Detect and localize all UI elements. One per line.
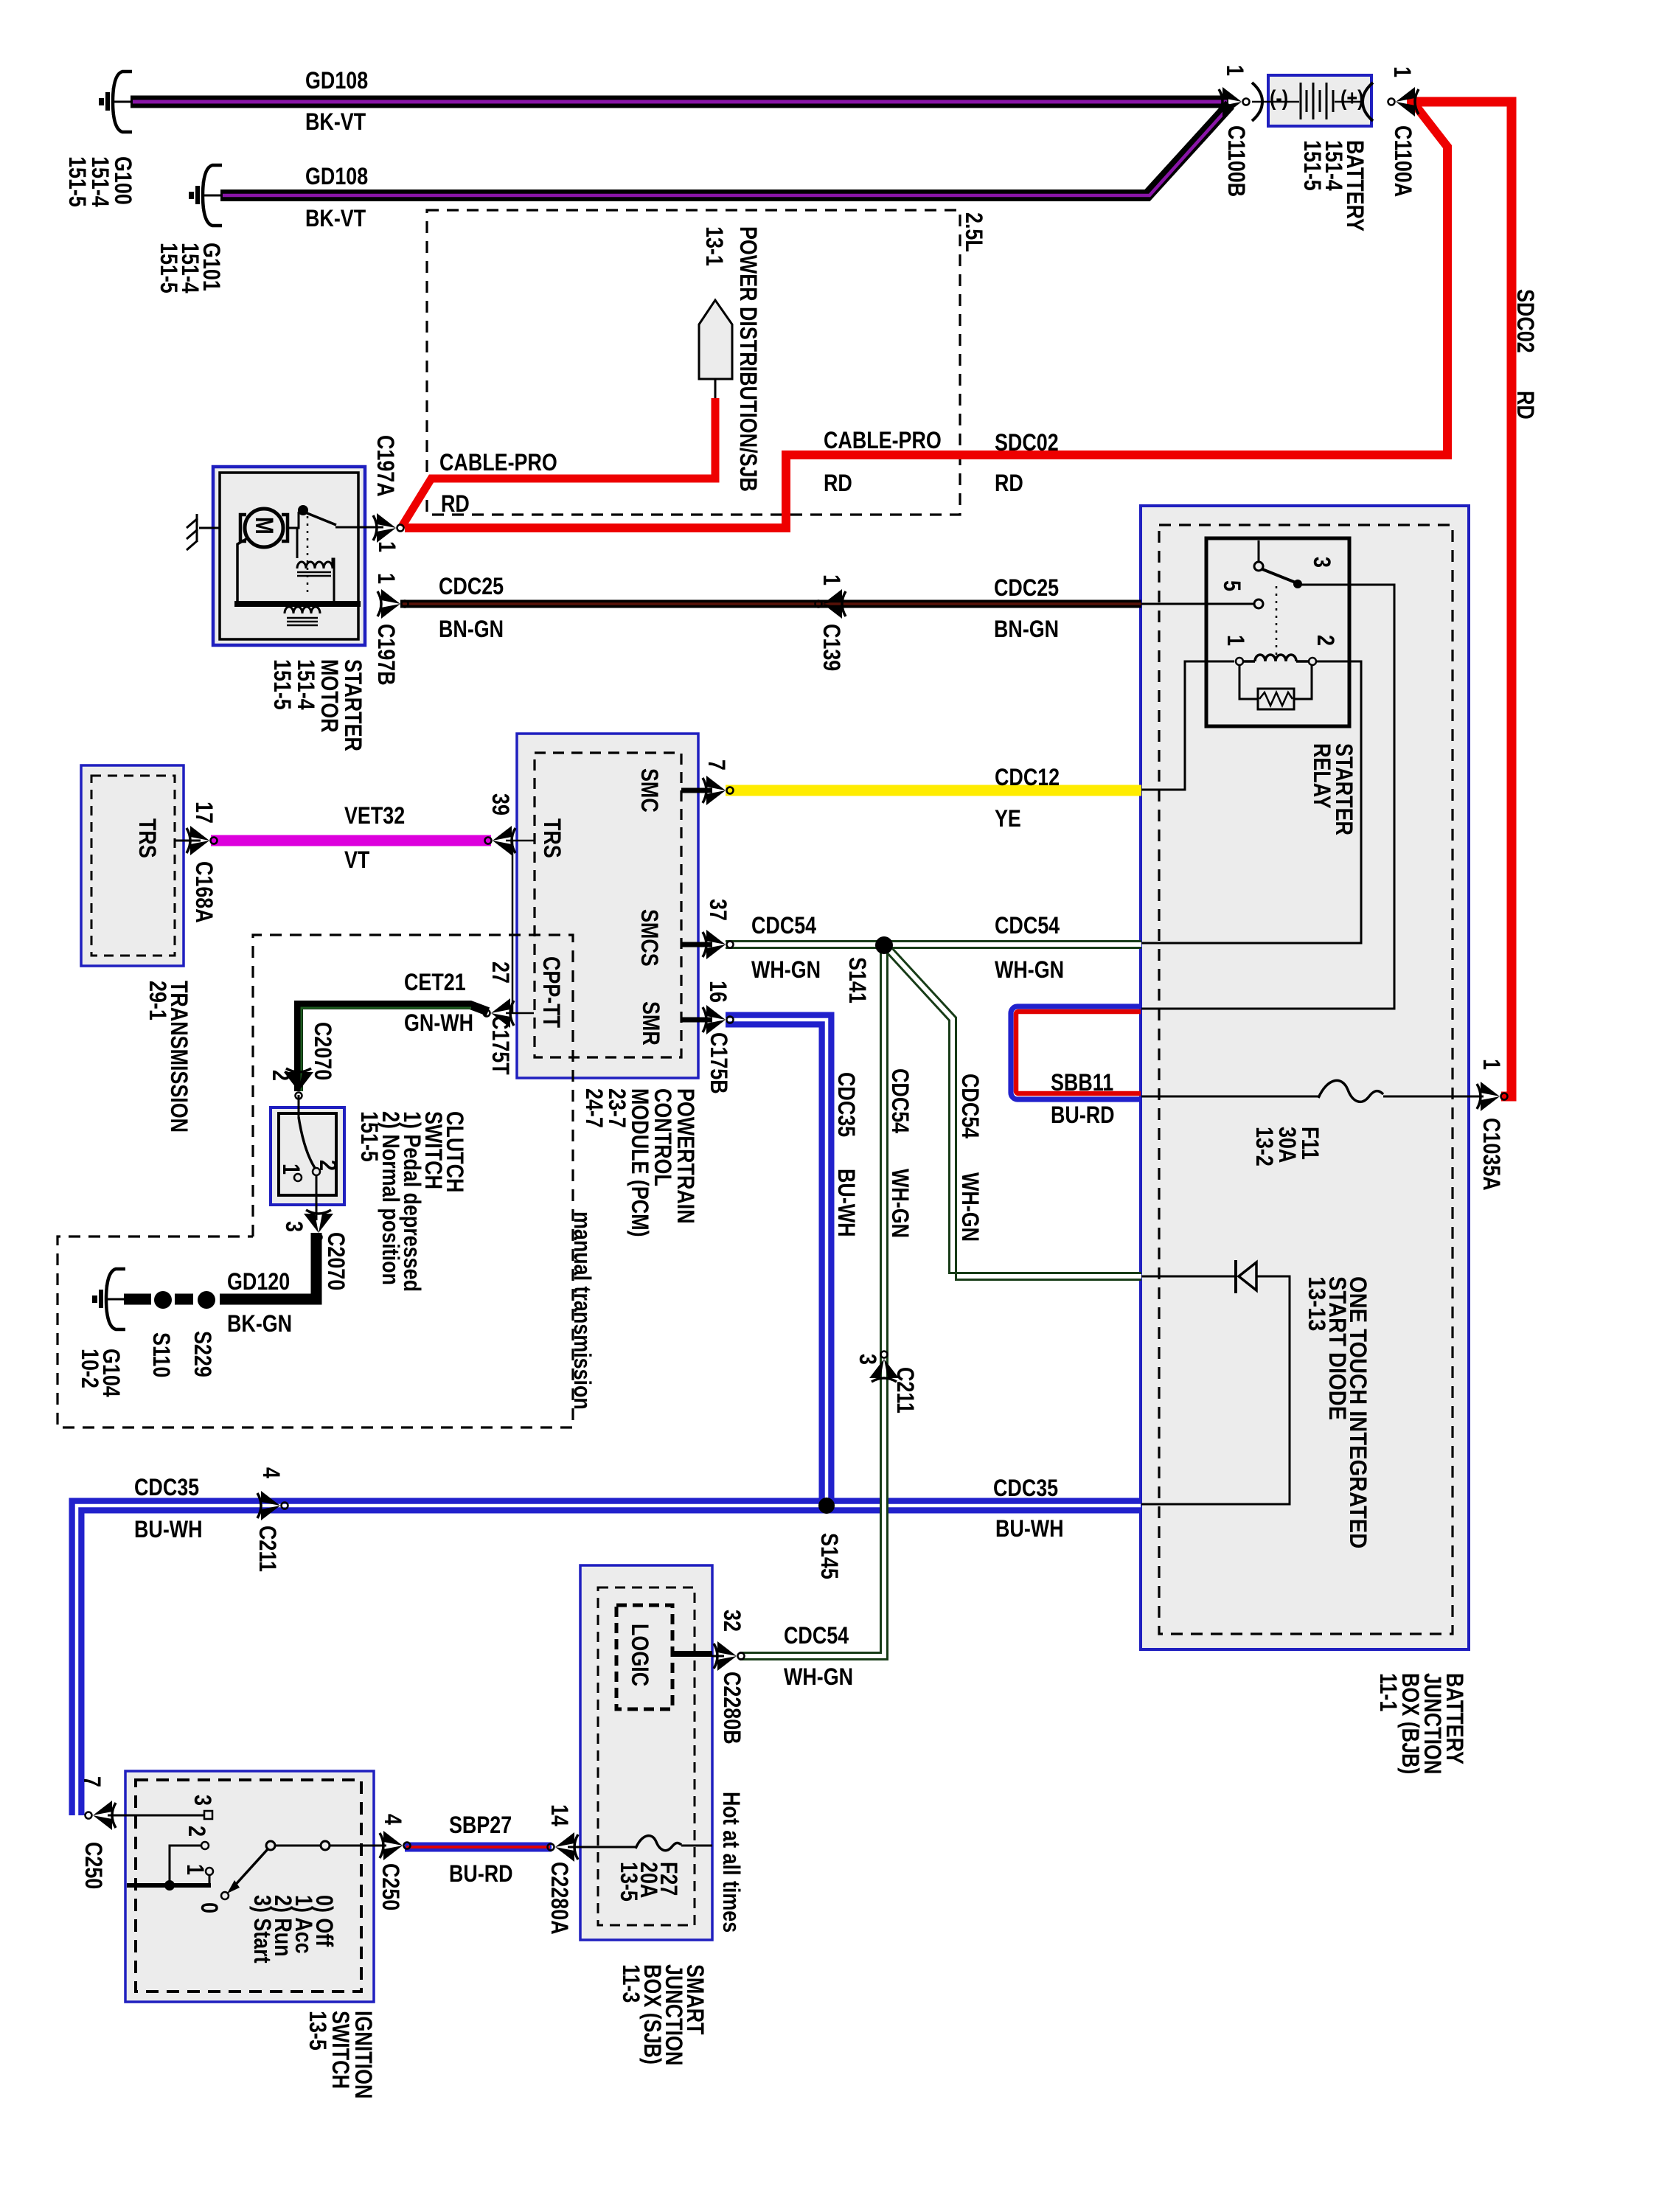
- label ONE TOUCH INTEGRATED START DIODE: [1304, 1276, 1371, 1548]
- starter switch output lead: [335, 526, 383, 529]
- pin 14 label (C2280A): [546, 1804, 572, 1826]
- svg-text:CDC25: CDC25: [994, 575, 1059, 602]
- ignition blade arrowhead: [227, 1880, 240, 1893]
- manual transmission dashed region: [58, 935, 573, 1427]
- connector label C197B: [372, 624, 399, 686]
- svg-text:CDC25: CDC25: [439, 574, 504, 600]
- svg-text:WH-GN: WH-GN: [956, 1172, 983, 1242]
- connector label C175T: [487, 1015, 513, 1075]
- svg-text:17: 17: [190, 801, 217, 824]
- svg-text:CDC54: CDC54: [784, 1623, 849, 1649]
- pin 1 label (C1035A): [1478, 1059, 1504, 1070]
- svg-text:CDC54: CDC54: [751, 913, 817, 939]
- svg-text:CDC54: CDC54: [995, 913, 1060, 939]
- pin 4 label (C250): [379, 1814, 406, 1825]
- connector label C211 (CDC54): [891, 1367, 918, 1413]
- BJB inner dashed boundary: [1159, 525, 1453, 1634]
- splice S110: [154, 1291, 172, 1309]
- svg-text:13-1: 13-1: [700, 226, 727, 266]
- svg-text:WH-GN: WH-GN: [784, 1664, 853, 1691]
- splice label S141: [844, 957, 870, 1004]
- connector label C2280B: [718, 1672, 745, 1745]
- wire GD108 from G100 to battery (black): [131, 96, 1228, 108]
- pin 4 label (C211): [257, 1467, 284, 1478]
- branch CDC54 green edge left: [887, 953, 1142, 1273]
- ignition lead from C250 to contact 3: [108, 1815, 206, 1817]
- svg-text:1: 1: [181, 1864, 208, 1875]
- PCM box: [517, 734, 698, 1078]
- label Hot at all times: [717, 1792, 744, 1933]
- label TRS (box): [133, 818, 160, 858]
- clutch switch inner black border: [279, 1113, 336, 1195]
- label LOGIC: [626, 1624, 653, 1686]
- battery box: [1268, 75, 1371, 126]
- ignition contact 2 label: [183, 1826, 209, 1837]
- clutch pin 2 label: [267, 1070, 293, 1081]
- label 2.5L: [960, 212, 987, 252]
- svg-text:STARTER: STARTER: [339, 659, 366, 751]
- lead SJB: pin 32 stub: [712, 1655, 724, 1658]
- svg-text:151-5: 151-5: [1298, 140, 1325, 191]
- ground G101: [189, 165, 222, 226]
- connector label C250 (pin 4): [377, 1863, 403, 1910]
- pin 1 label (C1100A): [1388, 66, 1415, 77]
- one touch integrated start diode (cathode bar): [1234, 1260, 1237, 1293]
- connector C211 pin 3 (CDC54 inline): [869, 1352, 899, 1382]
- splice S145: [818, 1498, 835, 1514]
- S141-SJB CDC54 green edge left: [740, 953, 881, 1653]
- svg-text:M: M: [250, 517, 278, 535]
- svg-text:RELAY: RELAY: [1308, 743, 1335, 809]
- connector label C2070 (top): [309, 1022, 335, 1080]
- svg-text:BN-GN: BN-GN: [439, 616, 504, 643]
- connector C2070 pin 3 (clutch switch bottom): [304, 1210, 333, 1241]
- svg-text:29-1: 29-1: [144, 981, 170, 1020]
- ground G100: [99, 72, 132, 132]
- svg-text:11-1: 11-1: [1374, 1673, 1401, 1711]
- svg-text:10-2: 10-2: [76, 1349, 102, 1388]
- wire CDC54 WH-GN S141 to SJB pin 32 (white core): [740, 953, 884, 1656]
- PCM pin 16 label: [704, 981, 731, 1003]
- starter pull-in winding lead: [296, 528, 299, 558]
- svg-text:1: 1: [277, 1164, 304, 1175]
- TRS pin 17 stub: [175, 840, 201, 842]
- svg-text:3: 3: [854, 1354, 880, 1365]
- svg-text:2.5L: 2.5L: [960, 212, 987, 252]
- relay pin 5 contact (open circle): [1254, 599, 1263, 608]
- svg-text:7: 7: [78, 1776, 105, 1787]
- svg-text:VT: VT: [344, 847, 369, 874]
- starter motor box: [213, 467, 365, 645]
- starter motor brush bracket left: [240, 515, 246, 541]
- wire SBP27 red tracer: [406, 1846, 550, 1848]
- svg-text:C2070: C2070: [309, 1022, 335, 1080]
- svg-text:BN-GN: BN-GN: [994, 616, 1059, 643]
- battery negative plate lead: [1252, 101, 1299, 103]
- svg-text:C197B: C197B: [372, 624, 399, 686]
- wire SDC02 RD battery to C1035A (right side): [1407, 102, 1512, 1096]
- lead from fuse to CABLE-PRO wire: [714, 379, 717, 400]
- svg-text:SBP27: SBP27: [449, 1812, 512, 1839]
- label manual transmission: [568, 1211, 595, 1410]
- svg-text:C250: C250: [377, 1863, 403, 1910]
- connector C2070 pin 2 (clutch switch top): [284, 1068, 313, 1099]
- starter solenoid switch lead: [288, 512, 299, 528]
- wire CDC35 BU-WH horizontal run and drop to ignition (blue): [77, 1506, 1141, 1815]
- svg-text:CDC35: CDC35: [993, 1475, 1058, 1502]
- svg-text:C211: C211: [891, 1367, 918, 1413]
- svg-text:CDC54: CDC54: [886, 1068, 913, 1134]
- connector label C175B: [705, 1032, 731, 1094]
- wire CDC35 white tracer (pin 16 run): [726, 1020, 827, 1506]
- svg-text:RD: RD: [1512, 391, 1538, 420]
- connector C1100A (battery positive): [1388, 87, 1419, 116]
- label STARTER RELAY: [1308, 743, 1357, 835]
- label POWERTRAIN CONTROL MODULE: [580, 1088, 698, 1237]
- svg-text:27: 27: [487, 961, 513, 984]
- PCM pin 37 label: [704, 899, 731, 921]
- svg-text:C139: C139: [818, 624, 844, 671]
- ignition contact 1: [206, 1868, 213, 1875]
- svg-text:C1035A: C1035A: [1478, 1118, 1504, 1191]
- label ignition positions: [248, 1895, 337, 1964]
- connector C175T pin 27 (PCM CPP-TT): [484, 998, 515, 1028]
- svg-text:1: 1: [818, 574, 844, 585]
- svg-text:S110: S110: [147, 1332, 174, 1377]
- SJB pin 32 label: [718, 1610, 745, 1632]
- PCM pin 37 stub: [681, 942, 712, 947]
- svg-text:CET21: CET21: [404, 970, 466, 996]
- svg-text:C2280A: C2280A: [546, 1862, 572, 1935]
- connector C139 (CDC25 inline): [815, 589, 846, 619]
- ignition tie junction dot: [164, 1880, 175, 1891]
- svg-text:24-7: 24-7: [580, 1088, 607, 1128]
- clutch pin 3 label: [280, 1221, 307, 1232]
- svg-text:(+): (+): [1340, 86, 1363, 111]
- svg-text:C211: C211: [254, 1526, 280, 1572]
- svg-text:Hot at all times: Hot at all times: [717, 1792, 744, 1933]
- lead BJB: relay pin 2 to CDC54: [1141, 661, 1361, 943]
- svg-text:3: 3: [1308, 557, 1335, 568]
- label CDC54 (branch1 vertical): [886, 1068, 913, 1134]
- clutch contact 2 label: [314, 1160, 341, 1171]
- svg-text:CDC35: CDC35: [134, 1475, 199, 1501]
- svg-text:C1100A: C1100A: [1389, 125, 1416, 197]
- svg-text:11-3: 11-3: [617, 1964, 644, 2003]
- ignition feed bar: [127, 1883, 211, 1888]
- lead SJB: LOGIC to pin 32: [672, 1651, 712, 1657]
- TRS inner dashed boundary: [91, 776, 175, 956]
- PCM label SMCS: [636, 909, 662, 967]
- splice label S145: [815, 1533, 842, 1579]
- svg-text:YE: YE: [995, 806, 1021, 832]
- svg-text:CABLE-PRO: CABLE-PRO: [824, 428, 942, 454]
- svg-text:SMR: SMR: [637, 1001, 664, 1046]
- label BU-WH (vertical): [832, 1169, 859, 1237]
- svg-text:SMC: SMC: [636, 768, 662, 813]
- svg-text:VET32: VET32: [344, 803, 405, 829]
- starter pull-in winding return lead: [333, 559, 334, 603]
- label TRANSMISSION: [144, 981, 192, 1133]
- svg-text:GD108: GD108: [305, 68, 368, 94]
- PCM label TRS: [538, 818, 565, 858]
- svg-text:5: 5: [1218, 580, 1245, 591]
- splice S229: [198, 1291, 215, 1309]
- PCM label SMC: [636, 768, 662, 813]
- branch CDC54 green edge right: [892, 948, 1142, 1280]
- label CDC35 (vertical): [832, 1072, 859, 1137]
- relay switch contact dot: [1293, 580, 1302, 588]
- wire CDC25 BN-GN starter motor to BJB (black): [400, 600, 1141, 608]
- label POWER DISTRIBUTION/SJB: [734, 226, 761, 492]
- power distribution/SJB dashed box: [427, 210, 960, 515]
- starter relay box: [1206, 538, 1349, 726]
- svg-text:CDC54: CDC54: [956, 1074, 983, 1139]
- connector label C211 (CDC35): [254, 1526, 280, 1572]
- svg-text:1: 1: [1478, 1059, 1504, 1070]
- svg-text:S141: S141: [844, 957, 870, 1004]
- fuse F27 20A: [636, 1836, 681, 1851]
- connector label C1100A: [1389, 125, 1416, 197]
- lead BJB: CDC54 branch to diode anode: [1141, 1276, 1234, 1278]
- svg-text:CPP-TT: CPP-TT: [538, 956, 564, 1028]
- label BATTERY: [1298, 140, 1368, 232]
- svg-text:SDC02: SDC02: [995, 430, 1059, 456]
- svg-text:GD108: GD108: [305, 164, 368, 190]
- starter motor inner black border: [220, 473, 358, 639]
- svg-text:14: 14: [546, 1804, 572, 1826]
- label G104 ground: [76, 1349, 124, 1397]
- connector label C2070 (bottom): [322, 1232, 349, 1290]
- ignition contact 1 label: [181, 1864, 208, 1875]
- svg-text:(-): (-): [1270, 86, 1288, 111]
- relay pin 3 label: [1308, 557, 1335, 568]
- label SDC02 (vertical): [1512, 289, 1538, 353]
- svg-text:151-5: 151-5: [155, 243, 181, 293]
- svg-text:S229: S229: [189, 1331, 215, 1377]
- pin 1 label (C1100B): [1221, 65, 1248, 76]
- svg-text:4: 4: [379, 1814, 406, 1825]
- svg-text:BU-WH: BU-WH: [832, 1169, 859, 1237]
- svg-text:1: 1: [1221, 65, 1248, 76]
- wire CDC54 WH-GN PCM pin 37 to BJB (white core): [726, 942, 1141, 947]
- svg-text:39: 39: [487, 793, 513, 815]
- battery junction box (BJB) outline: [1141, 506, 1469, 1649]
- ignition contact 0 label: [195, 1902, 222, 1913]
- PCM inner dashed boundary: [535, 753, 681, 1057]
- svg-text:WH-GN: WH-GN: [886, 1169, 913, 1238]
- svg-text:2: 2: [183, 1826, 209, 1837]
- PCM pin 27 label: [487, 961, 513, 984]
- svg-text:37: 37: [704, 899, 731, 921]
- label CLUTCH SWITCH: [355, 1111, 467, 1292]
- wire GD120 BK-GN clutch switch to G104: [124, 1233, 316, 1299]
- svg-text:RD: RD: [441, 491, 470, 518]
- ignition rotor common circle: [266, 1841, 275, 1850]
- connector C211 pin 4 (CDC35 inline): [257, 1491, 288, 1520]
- ignition contact 3 label: [189, 1795, 215, 1806]
- wire VET32 VT TRS to PCM pin 39: [211, 835, 491, 846]
- svg-text:BK-VT: BK-VT: [305, 109, 366, 136]
- battery positive plate lead: [1335, 101, 1363, 103]
- battery connector bracket left: [1252, 83, 1262, 121]
- relay armature dotted link: [1276, 586, 1278, 655]
- chassis ground at starter motor: [187, 514, 220, 550]
- clutch switch entry lead: [298, 1095, 300, 1117]
- svg-text:C2280B: C2280B: [718, 1672, 745, 1745]
- wire CET21 GN-WH clutch switch to PCM pin 27 (black): [299, 1005, 488, 1091]
- connector C1035A (BJB to SDC02): [1477, 1082, 1508, 1111]
- label SMART JUNCTION BOX (SJB): [617, 1964, 708, 2065]
- svg-text:WH-GN: WH-GN: [995, 957, 1064, 984]
- relay resistor zigzag: [1259, 692, 1293, 706]
- wire CDC54 WH-GN branch S141 to BJB diode (white core): [889, 950, 1141, 1276]
- connector C168A pin 17 (TRS): [187, 826, 218, 855]
- svg-text:13-5: 13-5: [615, 1862, 641, 1902]
- ignition rotor blade: [232, 1849, 268, 1889]
- wire SDC02/CABLE-PRO RD battery branch to starter: [405, 104, 1447, 528]
- relay pin 3 top lead: [1258, 540, 1260, 562]
- svg-text:32: 32: [718, 1610, 745, 1632]
- svg-text:2: 2: [1312, 635, 1338, 646]
- starter solenoid switch blade: [305, 512, 336, 525]
- connector label C2280A: [546, 1862, 572, 1935]
- starter motor brush bracket right: [282, 515, 288, 541]
- connector C1100B (battery negative): [1219, 87, 1250, 116]
- svg-text:MOTOR: MOTOR: [316, 659, 342, 733]
- SJB inner dashed boundary: [598, 1587, 695, 1925]
- svg-text:POWER DISTRIBUTION/SJB: POWER DISTRIBUTION/SJB: [734, 226, 761, 492]
- svg-text:TRS: TRS: [133, 818, 160, 858]
- label STARTER MOTOR: [268, 659, 366, 751]
- connector label C168A: [190, 861, 217, 923]
- smart junction box (SJB): [580, 1565, 712, 1940]
- fuse symbol in power distribution box: [699, 300, 732, 379]
- svg-text:3) Start: 3) Start: [248, 1895, 275, 1964]
- pin 7 label (C250): [78, 1776, 105, 1787]
- connector C175B pin 16 (PCM SMR): [703, 1005, 734, 1034]
- label G100 ground: [63, 156, 136, 207]
- LOGIC dashed box: [616, 1605, 672, 1709]
- connector C197B (starter motor): [378, 589, 408, 619]
- ignition contact 2: [201, 1842, 209, 1849]
- PCM pin 39 label: [487, 793, 513, 815]
- ignition contact 0: [221, 1892, 229, 1899]
- ignition contact 3 (square): [204, 1811, 212, 1819]
- svg-text:1: 1: [372, 573, 399, 584]
- svg-text:C197A: C197A: [372, 435, 398, 497]
- starter hold-in winding coil: [285, 607, 320, 613]
- relay resistor leads: [1239, 665, 1312, 699]
- wire SBB11 BU-RD loop (blue outer): [1011, 1006, 1141, 1099]
- starter pull-in winding core: [297, 572, 331, 576]
- svg-text:C1100B: C1100B: [1222, 125, 1249, 197]
- PCM pins 39/27 tie lead: [506, 841, 534, 1013]
- ignition switch box: [125, 1771, 374, 2002]
- svg-text:151-4: 151-4: [292, 659, 319, 710]
- relay coil: [1243, 655, 1309, 661]
- relay pin 2 label: [1312, 635, 1338, 646]
- connector label C197A: [372, 435, 398, 497]
- wire CDC25 brown tracer: [402, 602, 1141, 605]
- relay resistor box: [1258, 689, 1294, 709]
- label BATTERY JUNCTION BOX (BJB): [1374, 1673, 1467, 1774]
- lead SJB: fuse F27 to bus: [681, 1845, 712, 1847]
- PCM pin 7 label: [703, 759, 729, 771]
- label F11 30A 13-2: [1251, 1127, 1323, 1166]
- ignition tie 2-1 leads: [170, 1846, 209, 1885]
- svg-text:LOGIC: LOGIC: [626, 1624, 653, 1686]
- relay pin 1 terminal: [1236, 658, 1243, 665]
- connector C175B pin 7 (PCM SMC): [703, 776, 734, 805]
- svg-text:151-5: 151-5: [63, 156, 90, 207]
- relay pin 2 terminal: [1309, 658, 1316, 665]
- label WH-GN (branch2 vertical): [956, 1172, 983, 1242]
- svg-text:BK-GN: BK-GN: [227, 1311, 292, 1338]
- wire CDC54 green edge upper: [726, 940, 1141, 942]
- svg-text:0: 0: [195, 1902, 222, 1913]
- battery plates: [1301, 83, 1333, 119]
- lead BJB: diode to CDC35: [1141, 1276, 1290, 1504]
- splice label S110: [147, 1332, 174, 1377]
- svg-text:BU-WH: BU-WH: [134, 1517, 203, 1543]
- pin 3 label (C211): [854, 1354, 880, 1365]
- clutch switch output lead: [316, 1175, 318, 1220]
- starter motor loop lead: [237, 539, 246, 602]
- svg-text:TRS: TRS: [538, 818, 565, 858]
- wire GD108 violet tracer (G100): [133, 100, 1227, 104]
- svg-text:1: 1: [1388, 66, 1415, 77]
- clutch contact 1 label: [277, 1164, 304, 1175]
- relay pin 1 label: [1222, 635, 1248, 646]
- svg-text:16: 16: [704, 981, 731, 1003]
- svg-text:4: 4: [257, 1467, 284, 1478]
- starter hold-in winding bus: [234, 601, 361, 607]
- wire CDC54 green edge lower: [726, 947, 1141, 949]
- svg-text:2: 2: [267, 1070, 293, 1081]
- lead BJB: relay pin 3 output to SBB11 top arm: [1141, 585, 1394, 1009]
- wire CDC35 white tracer (horizontal run): [77, 1506, 1141, 1815]
- svg-text:151-5: 151-5: [268, 659, 295, 710]
- lead BJB: CDC25 to relay pin 5: [1141, 603, 1254, 605]
- connector C175B pin 37 (PCM SMCS): [703, 930, 734, 959]
- splice S141: [875, 936, 893, 954]
- PCM label SMR: [637, 1001, 664, 1046]
- ignition rotor circle 2: [321, 1841, 330, 1850]
- relay switch common (open circle): [1254, 562, 1263, 571]
- svg-text:GD120: GD120: [227, 1269, 290, 1295]
- wire SBB11 BU-RD loop (red inner): [1016, 1012, 1141, 1093]
- clutch switch contact 1: [294, 1174, 302, 1181]
- label CDC54 (branch2 vertical): [956, 1074, 983, 1139]
- one touch integrated start diode (triangle): [1239, 1262, 1256, 1290]
- fuse F11 30A: [1318, 1080, 1383, 1102]
- svg-text:1: 1: [373, 541, 400, 552]
- battery connector bracket right: [1363, 83, 1373, 121]
- PCM pin 7 stub: [681, 788, 712, 793]
- PCM pin 16 stub: [681, 1018, 712, 1023]
- clutch switch blade: [299, 1117, 315, 1168]
- label RD (vertical): [1512, 391, 1538, 420]
- clutch switch contact 2: [313, 1168, 320, 1175]
- wire GD108 violet tracer (G101): [223, 108, 1228, 195]
- lead BJB: SBB11 bottom arm to fuse F11: [1141, 1096, 1318, 1098]
- svg-text:RD: RD: [995, 470, 1023, 497]
- ignition output lead: [330, 1845, 386, 1847]
- svg-text:manual transmission: manual transmission: [568, 1211, 595, 1410]
- svg-text:BU-RD: BU-RD: [1051, 1102, 1115, 1129]
- splice label S229: [189, 1331, 215, 1377]
